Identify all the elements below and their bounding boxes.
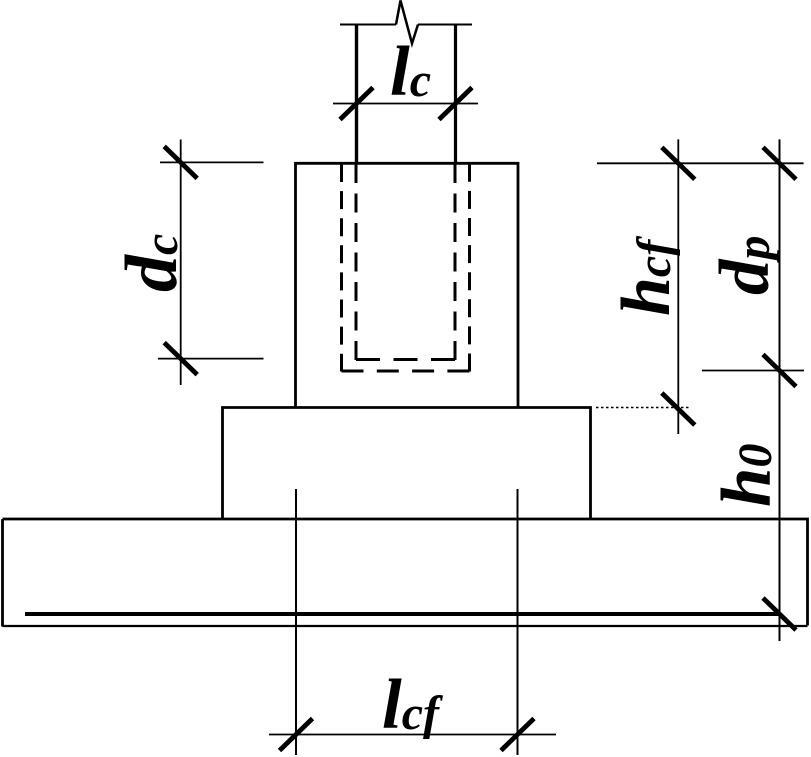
tick hcf bottom xyxy=(662,393,695,425)
extension line dc top xyxy=(160,161,264,163)
tick lcf left xyxy=(280,719,313,751)
break symbol zigzag xyxy=(396,1,418,44)
tick dp bottom xyxy=(763,355,796,387)
extension line right (lcf) xyxy=(517,489,519,755)
dimension line dp / h0 xyxy=(779,139,781,641)
column right side line xyxy=(454,25,457,164)
extension line left (lcf) xyxy=(295,489,297,755)
dimension line hcf xyxy=(677,139,679,434)
tick lcf right xyxy=(501,719,534,751)
extension line top right xyxy=(597,162,804,164)
tick hcf top xyxy=(662,147,695,179)
dimension line lcf xyxy=(269,734,556,736)
tick lc right xyxy=(439,88,472,120)
dotted extension line pedestal bottom xyxy=(596,407,690,409)
slab inner reinforcement line xyxy=(25,612,780,616)
tick dc bottom xyxy=(164,343,197,375)
tick lc left xyxy=(340,88,373,120)
hidden column outline (inner dashed U) xyxy=(356,164,455,360)
dimension line lc xyxy=(333,103,478,105)
column left side line xyxy=(355,25,358,164)
extension line dp bottom xyxy=(702,370,804,372)
column top edge line (broken) xyxy=(340,24,472,26)
extension line dc bottom xyxy=(158,358,264,360)
tick dc top xyxy=(164,146,197,178)
middle step block xyxy=(223,408,591,520)
tick dp top xyxy=(763,147,796,179)
bottom slab xyxy=(3,519,808,626)
dimension line dc xyxy=(180,140,182,386)
pedestal (upper footing block) xyxy=(296,163,519,407)
tick h0 bottom xyxy=(763,598,796,630)
socket pocket outline (outer dashed U) xyxy=(342,164,470,372)
